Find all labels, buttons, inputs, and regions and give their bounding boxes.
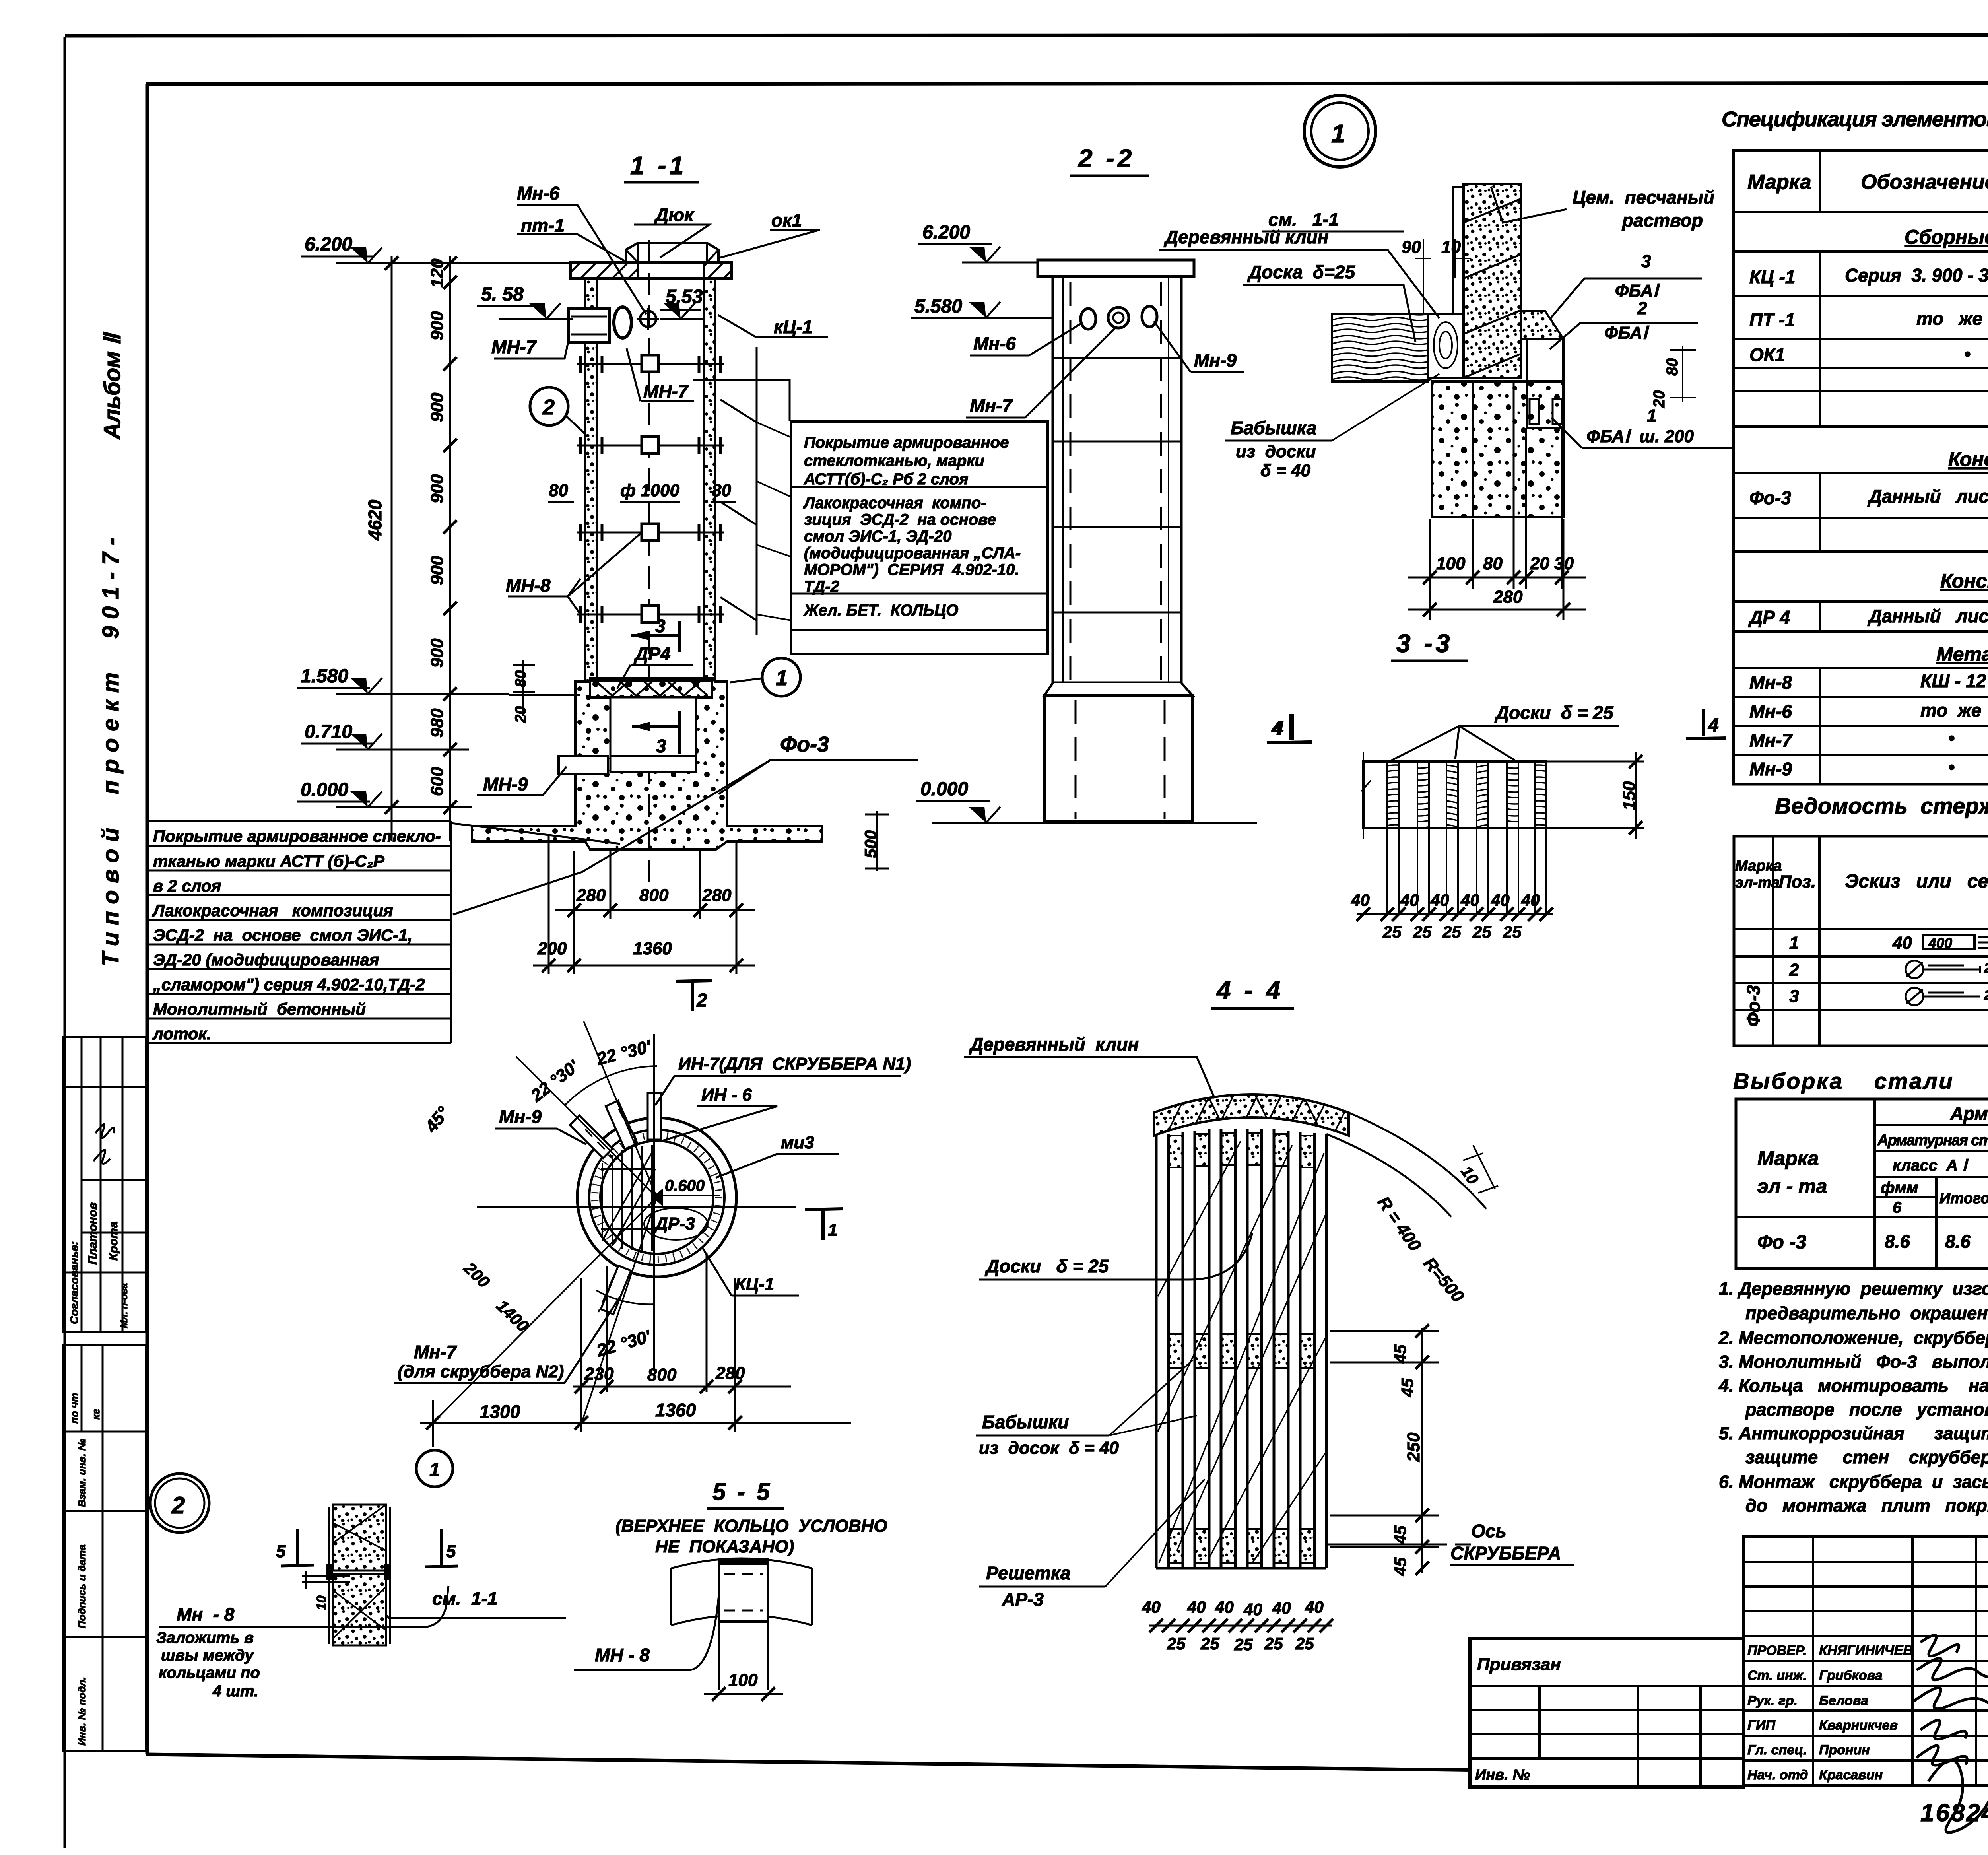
- svg-text:МН-9: МН-9: [483, 774, 528, 794]
- svg-text:3: 3: [1641, 252, 1651, 271]
- svg-text:ПТ -1: ПТ -1: [1749, 309, 1795, 330]
- svg-text:40: 40: [1351, 891, 1370, 909]
- svg-text:40: 40: [1305, 1598, 1324, 1616]
- svg-text:эл-та: эл-та: [1735, 874, 1780, 891]
- svg-text:100: 100: [728, 1670, 758, 1690]
- svg-text:Пронин: Пронин: [1819, 1742, 1870, 1758]
- svg-text:Бабышка: Бабышка: [1231, 418, 1316, 438]
- svg-text:2300: 2300: [1984, 961, 1988, 976]
- svg-text:Мн-7: Мн-7: [1749, 730, 1793, 751]
- svg-text:ГИП: ГИП: [1747, 1718, 1776, 1733]
- svg-text:40: 40: [1491, 891, 1510, 909]
- svg-text:40: 40: [1187, 1598, 1206, 1616]
- svg-text:25: 25: [1234, 1635, 1253, 1654]
- svg-text:40: 40: [1142, 1598, 1161, 1616]
- svg-text:6.200: 6.200: [305, 234, 352, 255]
- svg-text:0.000: 0.000: [301, 779, 348, 800]
- svg-text:ТД-2: ТД-2: [804, 578, 839, 595]
- svg-text:(модифицированная „СЛА-: (модифицированная „СЛА-: [804, 544, 1021, 562]
- svg-text:Обозначение: Обозначение: [1861, 171, 1988, 194]
- svg-text:120: 120: [427, 258, 447, 288]
- svg-text:Ось: Ось: [1471, 1521, 1507, 1541]
- svg-text:6. Монтаж скруббера и засы: 6. Монтаж скруббера и засыпку колец наса…: [1719, 1472, 1988, 1492]
- svg-text:4. Кольца монтировать на: 4. Кольца монтировать на свежеуложенном …: [1718, 1375, 1988, 1396]
- svg-text:Марка: Марка: [1757, 1147, 1819, 1169]
- svg-text:280: 280: [576, 886, 606, 905]
- svg-text:Покрытие армированное: Покрытие армированное: [804, 434, 1009, 451]
- svg-text:1: 1: [1647, 406, 1656, 425]
- svg-text:МН-7: МН-7: [643, 381, 689, 402]
- svg-text:1: 1: [1331, 119, 1345, 148]
- svg-text:эл - та: эл - та: [1757, 1175, 1827, 1197]
- svg-text:2: 2: [171, 1492, 185, 1519]
- svg-text:Рук. гр.: Рук. гр.: [1747, 1693, 1798, 1708]
- svg-text:6.200: 6.200: [922, 222, 970, 243]
- svg-text:Мн - 8: Мн - 8: [177, 1604, 235, 1625]
- svg-text:1: 1: [776, 666, 788, 690]
- svg-text:•: •: [1948, 757, 1955, 777]
- svg-text:4 - 4: 4 - 4: [1216, 976, 1283, 1004]
- svg-text:Мн-6: Мн-6: [1749, 701, 1792, 722]
- svg-text:600: 600: [427, 767, 447, 796]
- svg-text:Дюк: Дюк: [654, 204, 695, 225]
- svg-text:4 шт.: 4 шт.: [212, 1682, 258, 1700]
- svg-text:90: 90: [1402, 237, 1421, 257]
- svg-text:Марка: Марка: [1747, 171, 1811, 194]
- svg-text:Покрытие армированное стекло-: Покрытие армированное стекло-: [153, 827, 441, 845]
- svg-text:40: 40: [1460, 891, 1479, 909]
- svg-text:Грибкова: Грибкова: [1819, 1668, 1883, 1683]
- svg-text:Арматурные изделия: Арматурные изделия: [1950, 1103, 1988, 1124]
- svg-text:0.710: 0.710: [305, 721, 352, 742]
- svg-text:100: 100: [1436, 554, 1466, 573]
- svg-text:900: 900: [427, 392, 447, 422]
- svg-text:200: 200: [537, 939, 567, 958]
- svg-text:Мн-7: Мн-7: [414, 1342, 457, 1362]
- svg-text:„сламором") серия 4.902-10,ТД-: „сламором") серия 4.902-10,ТД-2: [153, 975, 425, 994]
- svg-text:3. Монолитный Фо-3 выполня: 3. Монолитный Фо-3 выполнять из бетона М…: [1719, 1352, 1988, 1372]
- svg-text:900: 900: [427, 556, 447, 585]
- svg-text:980: 980: [427, 708, 447, 738]
- svg-text:3: 3: [655, 616, 666, 636]
- svg-text:3 -3: 3 -3: [1396, 629, 1453, 658]
- svg-text:Деревянный клин: Деревянный клин: [969, 1034, 1139, 1055]
- svg-text:5. Антикоррозийная защита: 5. Антикоррозийная защита плиты перекрыт…: [1719, 1423, 1988, 1443]
- svg-text:Доски δ = 25: Доски δ = 25: [984, 1256, 1109, 1276]
- svg-text:800: 800: [639, 886, 669, 905]
- svg-text:Металлические марки: Металлические марки: [1936, 643, 1988, 665]
- svg-text:(ВЕРХНЕЕ КОЛЬЦО УСЛОВНО: (ВЕРХНЕЕ КОЛЬЦО УСЛОВНО: [615, 1516, 887, 1536]
- svg-text:Итого: Итого: [1939, 1190, 1988, 1207]
- svg-text:Платонов: Платонов: [86, 1202, 99, 1265]
- svg-text:КЦ -1: КЦ -1: [1749, 266, 1796, 287]
- svg-text:230: 230: [584, 1364, 614, 1384]
- svg-text:Взам. инв. №: Взам. инв. №: [76, 1439, 88, 1507]
- svg-text:1 -1: 1 -1: [630, 151, 687, 180]
- svg-text:лоток.: лоток.: [152, 1024, 212, 1043]
- svg-text:280: 280: [702, 886, 732, 905]
- svg-text:ФБАⅠ: ФБАⅠ: [1604, 323, 1650, 343]
- svg-text:25: 25: [1503, 923, 1522, 941]
- svg-text:40: 40: [1400, 891, 1419, 909]
- svg-text:5: 5: [446, 1542, 456, 1561]
- svg-text:Фо-3: Фо-3: [1743, 985, 1764, 1027]
- svg-text:25: 25: [1442, 923, 1461, 941]
- svg-text:80: 80: [1483, 554, 1503, 573]
- svg-text:Фо -3: Фо -3: [1757, 1232, 1806, 1253]
- svg-text:25: 25: [1382, 923, 1402, 941]
- svg-text:2. Местоположение, скруббера: 2. Местоположение, скруббера В плане см.…: [1718, 1328, 1988, 1348]
- svg-text:(для скруббера N2): (для скруббера N2): [398, 1362, 564, 1381]
- svg-text:10: 10: [314, 1595, 329, 1610]
- svg-text:Ведомость стержней на один: Ведомость стержней на один элемент: [1775, 793, 1988, 818]
- svg-text:Мл. п-ова: Мл. п-ова: [119, 1283, 130, 1328]
- svg-text:ИН-7(ДЛЯ СКРУББЕРА N1): ИН-7(ДЛЯ СКРУББЕРА N1): [678, 1054, 911, 1074]
- svg-text:кольцами по: кольцами по: [159, 1664, 260, 1682]
- svg-text:Фо-3: Фо-3: [780, 732, 829, 756]
- svg-text:2300: 2300: [1984, 988, 1988, 1003]
- svg-text:40: 40: [1430, 891, 1449, 909]
- svg-text:40: 40: [1215, 1598, 1234, 1616]
- svg-text:0.600: 0.600: [665, 1177, 705, 1195]
- svg-text:500: 500: [861, 830, 880, 858]
- svg-text:класс А Ⅰ: класс А Ⅰ: [1893, 1157, 1969, 1174]
- svg-text:Бабышки: Бабышки: [982, 1412, 1069, 1432]
- svg-text:кг: кг: [90, 1409, 102, 1420]
- svg-text:см. 1-1: см. 1-1: [432, 1588, 497, 1609]
- svg-text:кЦ-1: кЦ-1: [774, 317, 813, 337]
- svg-text:3: 3: [656, 736, 666, 756]
- svg-text:ЭД-20 (модифицированная: ЭД-20 (модифицированная: [153, 950, 379, 969]
- svg-text:80: 80: [1664, 358, 1681, 376]
- svg-text:Арматурная сталь ГОСТ 5781-75: Арматурная сталь ГОСТ 5781-75: [1877, 1132, 1988, 1149]
- svg-text:Данный лист: Данный лист: [1867, 606, 1988, 626]
- svg-text:пт-1: пт-1: [521, 215, 565, 236]
- svg-text:900: 900: [427, 638, 447, 668]
- svg-text:280: 280: [1493, 587, 1523, 607]
- svg-text:ПРОВЕР.: ПРОВЕР.: [1747, 1643, 1807, 1658]
- svg-text:1.580: 1.580: [301, 666, 348, 687]
- svg-text:МН - 8: МН - 8: [595, 1645, 650, 1665]
- svg-text:до монтажа плит покрытия: до монтажа плит покрытия здания.: [1745, 1496, 1988, 1516]
- svg-text:40: 40: [1243, 1600, 1262, 1619]
- svg-text:2: 2: [1637, 299, 1647, 318]
- svg-text:защите стен скруббера.: защите стен скруббера.: [1745, 1447, 1988, 1467]
- svg-text:ДР 4: ДР 4: [1748, 607, 1790, 627]
- svg-text:Кварникчев: Кварникчев: [1819, 1718, 1898, 1733]
- svg-text:Мн-9: Мн-9: [1194, 350, 1237, 371]
- svg-text:Конструкции деревянные: Конструкции деревянные: [1940, 570, 1988, 592]
- svg-text:25: 25: [1295, 1634, 1314, 1653]
- svg-text:16824-04 20: 16824-04 20: [1920, 1799, 1988, 1827]
- svg-text:0.000: 0.000: [920, 779, 968, 800]
- svg-text:смол ЭИС-1, ЭД-20: смол ЭИС-1, ЭД-20: [804, 528, 951, 545]
- svg-text:Доски δ = 25: Доски δ = 25: [1494, 702, 1614, 723]
- svg-text:1360: 1360: [655, 1400, 696, 1420]
- svg-text:АР-3: АР-3: [1002, 1589, 1044, 1610]
- svg-text:5. 58: 5. 58: [481, 284, 524, 305]
- svg-text:ОК1: ОК1: [1749, 344, 1785, 365]
- svg-text:ДР-3: ДР-3: [654, 1214, 695, 1233]
- svg-text:4620: 4620: [365, 499, 385, 541]
- svg-text:2 -2: 2 -2: [1078, 144, 1135, 173]
- svg-text:то же: то же: [1916, 308, 1982, 329]
- svg-text:25: 25: [1472, 923, 1491, 941]
- svg-text:то же: то же: [1920, 700, 1981, 721]
- svg-text:8.6: 8.6: [1885, 1231, 1910, 1252]
- svg-text:150: 150: [1619, 781, 1639, 810]
- svg-text:по чт: по чт: [68, 1393, 80, 1424]
- svg-text:1: 1: [828, 1220, 837, 1240]
- svg-text:Поз.: Поз.: [1779, 872, 1816, 892]
- svg-text:1360: 1360: [633, 939, 672, 958]
- svg-text:Нач. отд: Нач. отд: [1747, 1768, 1808, 1783]
- svg-text:ЭСД-2 на основе смол ЭИС-1,: ЭСД-2 на основе смол ЭИС-1,: [153, 926, 412, 944]
- svg-text:МН-8: МН-8: [506, 575, 551, 596]
- svg-text:СКРУББЕРА: СКРУББЕРА: [1450, 1543, 1561, 1564]
- svg-text:Мн-6: Мн-6: [517, 183, 559, 204]
- svg-text:800: 800: [647, 1365, 677, 1385]
- svg-text:250: 250: [1404, 1432, 1423, 1462]
- svg-text:МН-7: МН-7: [491, 336, 537, 357]
- svg-text:6: 6: [1893, 1199, 1902, 1216]
- svg-text:Марка: Марка: [1735, 858, 1782, 874]
- svg-text:швы между: швы между: [161, 1647, 254, 1664]
- svg-text:45: 45: [1391, 1557, 1409, 1576]
- svg-text:Лакокрасочная компо-: Лакокрасочная компо-: [803, 494, 986, 512]
- svg-text:80: 80: [712, 481, 731, 500]
- svg-text:Доска δ=25: Доска δ=25: [1247, 262, 1355, 282]
- svg-text:Выборка стали на один: Выборка стали на один элемент, кг: [1733, 1068, 1988, 1094]
- svg-text:45: 45: [1398, 1378, 1417, 1397]
- svg-text:Мн-8: Мн-8: [1749, 672, 1792, 693]
- svg-text:1. Деревянную решетку изгота: 1. Деревянную решетку изготавливать из, …: [1719, 1278, 1988, 1299]
- svg-text:ФБАⅠ: ФБАⅠ: [1615, 281, 1660, 301]
- svg-text:45: 45: [1391, 1525, 1409, 1544]
- svg-text:Заложить в: Заложить в: [156, 1629, 254, 1647]
- svg-text:1300: 1300: [480, 1401, 520, 1422]
- svg-text:Мн-9: Мн-9: [1749, 759, 1792, 779]
- svg-text:2: 2: [696, 990, 707, 1011]
- svg-text:5.580: 5.580: [914, 296, 962, 317]
- svg-text:2: 2: [542, 395, 555, 419]
- svg-text:КНЯГИНИЧЕВ: КНЯГИНИЧЕВ: [1819, 1643, 1913, 1658]
- svg-text:25: 25: [1264, 1634, 1283, 1653]
- svg-text:Привязан: Привязан: [1477, 1655, 1561, 1674]
- svg-text:стеклотканью, марки: стеклотканью, марки: [804, 452, 984, 470]
- svg-text:40: 40: [1892, 933, 1912, 953]
- svg-text:Красавин: Красавин: [1819, 1768, 1883, 1783]
- svg-text:предварительно окрашенных э: предварительно окрашенных эпоксидной смо…: [1745, 1303, 1988, 1323]
- svg-text:400: 400: [1928, 935, 1952, 951]
- svg-text:Деревянный клин: Деревянный клин: [1163, 227, 1328, 247]
- svg-text:МОРОМ") СЕРИЯ 4.902-10.: МОРОМ") СЕРИЯ 4.902-10.: [804, 561, 1019, 579]
- svg-text:•: •: [1964, 344, 1971, 364]
- svg-text:3: 3: [1789, 987, 1799, 1006]
- svg-text:Решетка: Решетка: [986, 1563, 1071, 1583]
- svg-text:40: 40: [1272, 1599, 1291, 1617]
- svg-text:из досок δ = 40: из досок δ = 40: [979, 1438, 1119, 1458]
- svg-text:ми3: ми3: [781, 1133, 814, 1152]
- svg-text:4: 4: [1708, 715, 1719, 736]
- svg-text:Мн-7: Мн-7: [970, 395, 1013, 416]
- svg-text:Цем. песчаный: Цем. песчаный: [1573, 187, 1714, 208]
- svg-text:Гл. спец.: Гл. спец.: [1747, 1742, 1807, 1758]
- svg-text:Лакокрасочная композиция: Лакокрасочная композиция: [152, 901, 393, 920]
- svg-text:25: 25: [1167, 1634, 1186, 1653]
- svg-text:КШ - 12: КШ - 12: [1920, 670, 1986, 691]
- svg-text:Монолитный бетонный: Монолитный бетонный: [153, 1000, 366, 1018]
- svg-text:20: 20: [513, 706, 529, 723]
- svg-text:Фо-3: Фо-3: [1749, 488, 1791, 508]
- svg-text:Мн-6: Мн-6: [973, 333, 1016, 354]
- svg-text:45: 45: [1391, 1344, 1409, 1364]
- svg-text:Подпись и дата: Подпись и дата: [76, 1544, 88, 1628]
- svg-text:Сборные жел. бет. элементы: Сборные жел. бет. элементы: [1905, 226, 1988, 248]
- svg-text:1: 1: [429, 1459, 440, 1480]
- svg-text:раствор: раствор: [1621, 210, 1703, 231]
- svg-text:растворе после установки: растворе после установки фиксирующих мар…: [1745, 1399, 1988, 1420]
- svg-text:80: 80: [549, 481, 568, 500]
- svg-text:Белова: Белова: [1819, 1693, 1868, 1708]
- svg-text:Крота: Крота: [107, 1222, 120, 1261]
- svg-text:25: 25: [1413, 923, 1432, 941]
- svg-text:8.6: 8.6: [1945, 1231, 1971, 1252]
- svg-text:40: 40: [1521, 891, 1540, 909]
- svg-text:фмм: фмм: [1881, 1179, 1918, 1197]
- svg-text:25: 25: [1200, 1634, 1219, 1653]
- svg-text:Спецификация элементов к марки: Спецификация элементов к маркировочной с…: [1722, 107, 1988, 131]
- svg-text:80: 80: [513, 670, 529, 687]
- svg-text:Мн-9: Мн-9: [499, 1106, 542, 1127]
- svg-text:4: 4: [1273, 718, 1284, 739]
- svg-text:Конструкции монолитные: Конструкции монолитные: [1948, 448, 1988, 470]
- svg-text:Альбом Ⅱ: Альбом Ⅱ: [99, 332, 125, 440]
- svg-text:Жел. БЕТ. КОЛЬЦО: Жел. БЕТ. КОЛЬЦО: [803, 602, 958, 619]
- svg-text:Эскиз или сечение: Эскиз или сечение: [1845, 871, 1988, 892]
- svg-text:5 - 5: 5 - 5: [712, 1478, 772, 1505]
- svg-text:1: 1: [1789, 933, 1799, 953]
- svg-text:•: •: [1948, 728, 1955, 748]
- svg-text:Ст. инж.: Ст. инж.: [1747, 1668, 1807, 1683]
- svg-text:ИН - 6: ИН - 6: [701, 1085, 752, 1105]
- svg-text:10: 10: [1441, 237, 1461, 257]
- svg-text:δ = 40: δ = 40: [1260, 461, 1310, 480]
- svg-text:ФБАⅠ ш. 200: ФБАⅠ ш. 200: [1586, 427, 1694, 446]
- svg-text:Инв. №: Инв. №: [1475, 1767, 1530, 1783]
- svg-text:280: 280: [715, 1364, 745, 1383]
- svg-text:900: 900: [427, 474, 447, 503]
- svg-text:тканью марки АСТТ (б)-С₂Р: тканью марки АСТТ (б)-С₂Р: [153, 852, 385, 870]
- svg-text:ф 1000: ф 1000: [620, 481, 680, 500]
- svg-text:ДР4: ДР4: [633, 643, 670, 664]
- svg-text:АСТТ(б)-С₂ Рб 2 слоя: АСТТ(б)-С₂ Рб 2 слоя: [804, 470, 969, 488]
- svg-text:900: 900: [427, 311, 447, 340]
- svg-text:из доски: из доски: [1236, 442, 1316, 461]
- svg-text:Серия 3. 900 - 3 вып. 7: Серия 3. 900 - 3 вып. 7: [1845, 265, 1988, 286]
- svg-text:Согласованье:: Согласованье:: [68, 1241, 80, 1324]
- svg-text:ок1: ок1: [771, 210, 802, 231]
- svg-text:КЦ-1: КЦ-1: [735, 1274, 774, 1294]
- svg-text:Данный лист: Данный лист: [1867, 486, 1988, 507]
- svg-text:5: 5: [276, 1542, 286, 1561]
- svg-text:2: 2: [1789, 960, 1799, 980]
- svg-text:зиция ЭСД-2 на основе: зиция ЭСД-2 на основе: [804, 511, 996, 528]
- svg-text:20 30: 20 30: [1530, 554, 1574, 573]
- svg-text:Инв. № подл.: Инв. № подл.: [76, 1677, 88, 1746]
- svg-text:в 2 слоя: в 2 слоя: [153, 876, 221, 895]
- svg-text:НЕ ПОКАЗАНО): НЕ ПОКАЗАНО): [655, 1537, 794, 1556]
